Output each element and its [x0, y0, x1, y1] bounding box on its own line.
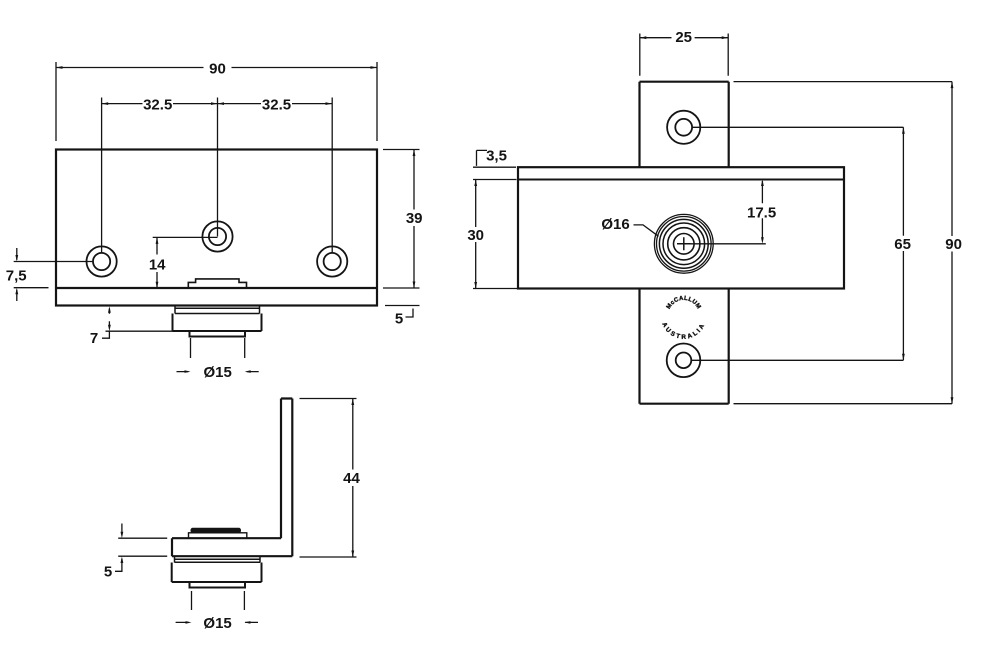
svg-text:32.5: 32.5	[143, 96, 172, 113]
svg-text:17.5: 17.5	[747, 205, 776, 222]
svg-text:7: 7	[90, 330, 98, 347]
svg-text:3,5: 3,5	[486, 147, 507, 164]
svg-text:44: 44	[343, 470, 360, 487]
svg-text:90: 90	[209, 61, 226, 78]
svg-text:5: 5	[395, 311, 403, 328]
svg-text:Ø16: Ø16	[601, 216, 629, 233]
svg-text:25: 25	[675, 29, 692, 46]
svg-text:65: 65	[894, 236, 911, 253]
svg-text:14: 14	[149, 257, 166, 274]
svg-text:McCALLUM: McCALLUM	[666, 296, 702, 311]
svg-text:39: 39	[406, 210, 423, 227]
svg-text:Ø15: Ø15	[204, 364, 232, 381]
svg-text:AUSTRALIA: AUSTRALIA	[660, 321, 707, 341]
svg-text:Ø15: Ø15	[203, 615, 231, 632]
svg-text:90: 90	[945, 236, 962, 253]
svg-text:5: 5	[104, 563, 112, 580]
svg-text:30: 30	[467, 227, 484, 244]
svg-text:32.5: 32.5	[262, 96, 291, 113]
svg-text:7,5: 7,5	[6, 268, 27, 285]
